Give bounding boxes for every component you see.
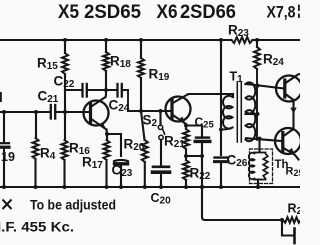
svg-text:2SD66: 2SD66 bbox=[180, 2, 236, 23]
svg-text:X5: X5 bbox=[58, 2, 79, 23]
svg-text:2SD65: 2SD65 bbox=[84, 2, 141, 23]
svg-text:X7,8: X7,8 bbox=[267, 3, 296, 22]
svg-text:I.F. 455 Kc.: I.F. 455 Kc. bbox=[0, 219, 74, 235]
svg-text:R25: R25 bbox=[286, 166, 301, 178]
svg-text:To be adjusted: To be adjusted bbox=[30, 198, 116, 213]
svg-text:19: 19 bbox=[1, 150, 15, 164]
svg-text:X6: X6 bbox=[157, 2, 178, 23]
